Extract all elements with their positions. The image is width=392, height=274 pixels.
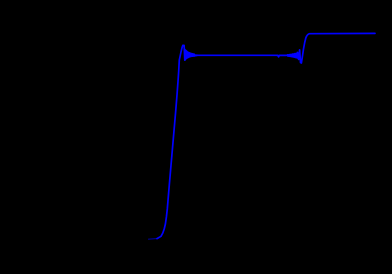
ringing envelope fill after rise 1 [184, 48, 198, 61]
ringing envelope fill before rise 2 [287, 52, 300, 61]
waveform trace: rise 1 with overshoot peak and settling [157, 45, 278, 238]
waveform trace: small tick, growing pre-ringing and rise 2 to top level [277, 33, 375, 63]
faint start tail of trace [149, 237, 159, 240]
